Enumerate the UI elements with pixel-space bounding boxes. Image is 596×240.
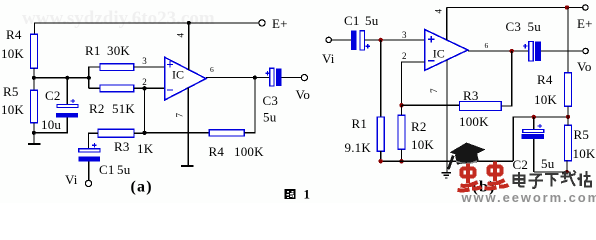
svg-text:Vo: Vo bbox=[296, 87, 311, 102]
svg-text:R4: R4 bbox=[209, 144, 225, 159]
resistor R4 100K a bbox=[209, 130, 244, 136]
capacitor C3 a 5u bbox=[265, 71, 269, 75]
wire pin2 b bbox=[402, 62, 425, 105]
resistor R1 9.1K b bbox=[377, 117, 384, 151]
watermark 电子下载站 (hand-drawn dark glyph blocks) bbox=[514, 171, 592, 188]
wire main horizontal a bbox=[34, 77, 89, 79]
wire C2 bottom to R5 bottom bbox=[534, 171, 567, 173]
node Vo terminal a bbox=[301, 75, 307, 81]
svg-text:Vo: Vo bbox=[577, 59, 592, 74]
svg-text:5u: 5u bbox=[117, 162, 131, 177]
svg-text:10K: 10K bbox=[573, 146, 596, 161]
svg-text:C3: C3 bbox=[263, 93, 279, 108]
wire mid rail b bbox=[513, 117, 568, 161]
pin 4 wire b bbox=[446, 8, 448, 41]
wire C3 to Vo a bbox=[281, 77, 301, 79]
op-amp U1 b bbox=[425, 30, 468, 71]
svg-text:Vi: Vi bbox=[65, 172, 78, 187]
下 bbox=[545, 174, 559, 187]
wire Vi to C1 b bbox=[331, 39, 351, 41]
resistor R3 1K a bbox=[98, 129, 134, 137]
wire bottom rail b bbox=[381, 160, 514, 162]
resistor R2 51K bbox=[100, 85, 134, 92]
svg-text:C3: C3 bbox=[506, 19, 522, 34]
svg-text:9.1K: 9.1K bbox=[345, 140, 372, 155]
wire top rail a bbox=[35, 23, 259, 34]
capacitor C2 10u bbox=[66, 78, 68, 105]
svg-text:4: 4 bbox=[176, 33, 186, 38]
svg-text:R3: R3 bbox=[114, 139, 130, 154]
resistor R4 (left 10K) bbox=[30, 34, 37, 68]
junction dots main wire a bbox=[32, 76, 36, 80]
node E+ terminal a bbox=[259, 20, 265, 26]
载 bbox=[561, 171, 577, 187]
svg-text:30K: 30K bbox=[107, 43, 130, 58]
capacitor C2 b 5u bbox=[533, 117, 535, 129]
svg-text:5u: 5u bbox=[541, 156, 555, 171]
svg-text:2: 2 bbox=[402, 51, 407, 61]
svg-text:5u: 5u bbox=[528, 19, 542, 34]
op-amp U1 a bbox=[165, 57, 207, 100]
wire R2 to pin2 bbox=[134, 87, 165, 89]
svg-text:4: 4 bbox=[434, 9, 444, 14]
wire R4 bottom to main node bbox=[33, 68, 35, 78]
resistor R1 30K bbox=[100, 64, 134, 71]
watermark hat bbox=[447, 143, 486, 170]
resistor R4 10K b bbox=[567, 8, 569, 73]
wire C1 to pin3 b bbox=[365, 39, 425, 41]
svg-text:R3: R3 bbox=[463, 88, 479, 103]
svg-text:7: 7 bbox=[175, 113, 185, 118]
ground b bbox=[446, 161, 448, 172]
wire pin2 down to R3 node bbox=[144, 88, 146, 133]
svg-text:5u: 5u bbox=[365, 13, 379, 28]
svg-text:IC: IC bbox=[433, 47, 445, 61]
resistor R3 100K b bbox=[460, 102, 502, 111]
svg-text:(a): (a) bbox=[131, 179, 153, 196]
wire R1 to pin3 bbox=[134, 66, 165, 68]
capacitor C1 b 5u bbox=[351, 31, 356, 50]
svg-text:3: 3 bbox=[142, 56, 147, 66]
svg-text:www.sydzdiy.6to23.com: www.sydzdiy.6to23.com bbox=[22, 8, 215, 29]
svg-text:C1: C1 bbox=[344, 13, 360, 28]
svg-text:R5: R5 bbox=[574, 127, 590, 142]
svg-text:6: 6 bbox=[210, 65, 214, 74]
capacitor C3 b 5u bbox=[523, 44, 527, 48]
svg-text:5u: 5u bbox=[263, 110, 277, 125]
resistor R2 10K b bbox=[398, 115, 405, 149]
svg-text:R4: R4 bbox=[537, 72, 553, 87]
svg-text:R5: R5 bbox=[3, 84, 19, 99]
ground bar pin7 a bbox=[181, 165, 193, 167]
wire feedback bottom a bbox=[145, 132, 210, 134]
wire C3 to Vo b bbox=[541, 50, 583, 52]
svg-text:2: 2 bbox=[142, 77, 147, 87]
站 bbox=[578, 171, 591, 187]
svg-text:R4: R4 bbox=[6, 27, 22, 42]
svg-text:E+: E+ bbox=[272, 16, 288, 31]
wire output a bbox=[206, 77, 270, 79]
svg-text:C2: C2 bbox=[45, 88, 61, 103]
resistor R5 (left 10K) bbox=[33, 78, 35, 90]
node Vo terminal b bbox=[583, 48, 588, 53]
svg-text:R1: R1 bbox=[352, 116, 368, 131]
wire down to R1 b bbox=[380, 40, 382, 117]
svg-text:100K: 100K bbox=[234, 144, 264, 159]
wire R3 feedback b bbox=[402, 104, 460, 106]
svg-text:6: 6 bbox=[485, 41, 489, 50]
wire ground node to C2 bottom bbox=[34, 118, 67, 133]
capacitor C1 a 5u bbox=[92, 143, 96, 147]
svg-text:10K: 10K bbox=[1, 46, 24, 61]
svg-text:R2: R2 bbox=[89, 101, 105, 116]
wire branch to R1/R2 bbox=[89, 67, 100, 88]
wire output b bbox=[468, 50, 529, 52]
pin 4 wire a bbox=[188, 23, 190, 70]
svg-text:C1: C1 bbox=[99, 162, 115, 177]
node Vi terminal b bbox=[326, 37, 331, 42]
resistor R5 10K b bbox=[565, 125, 572, 160]
svg-text:IC: IC bbox=[172, 68, 184, 82]
ground bar a left bbox=[33, 133, 35, 144]
svg-text:R2: R2 bbox=[411, 119, 427, 134]
svg-text:10K: 10K bbox=[411, 137, 434, 152]
node Vi terminal a bbox=[85, 180, 91, 186]
svg-text:Vi: Vi bbox=[322, 51, 335, 66]
电 bbox=[514, 176, 525, 184]
svg-text:1K: 1K bbox=[137, 141, 154, 156]
wire R5 bottom to ground node bbox=[33, 123, 35, 133]
svg-text:R1: R1 bbox=[85, 43, 101, 58]
svg-text:www.eeworm.com: www.eeworm.com bbox=[461, 190, 596, 203]
svg-text:100K: 100K bbox=[459, 114, 489, 129]
wire top rail b bbox=[447, 7, 583, 9]
pin 7 wire a bbox=[187, 88, 189, 166]
svg-text:3: 3 bbox=[402, 30, 407, 40]
svg-text:51K: 51K bbox=[112, 101, 135, 116]
svg-text:E+: E+ bbox=[577, 16, 593, 31]
node E+ terminal b bbox=[583, 5, 588, 10]
svg-text:10u: 10u bbox=[41, 117, 61, 132]
node pin2 junction bbox=[142, 86, 146, 90]
svg-text:10K: 10K bbox=[1, 102, 24, 117]
svg-text:7: 7 bbox=[429, 88, 439, 93]
子 bbox=[529, 175, 544, 188]
svg-text:1: 1 bbox=[304, 187, 311, 202]
watermark 虫虫 red characters (hand-drawn) bbox=[458, 162, 509, 191]
svg-text:C2: C2 bbox=[513, 157, 529, 172]
label 图 1 (hand-drawn glyph) bbox=[285, 189, 296, 199]
pin 7 wire b bbox=[446, 60, 448, 162]
svg-text:10K: 10K bbox=[534, 92, 557, 107]
